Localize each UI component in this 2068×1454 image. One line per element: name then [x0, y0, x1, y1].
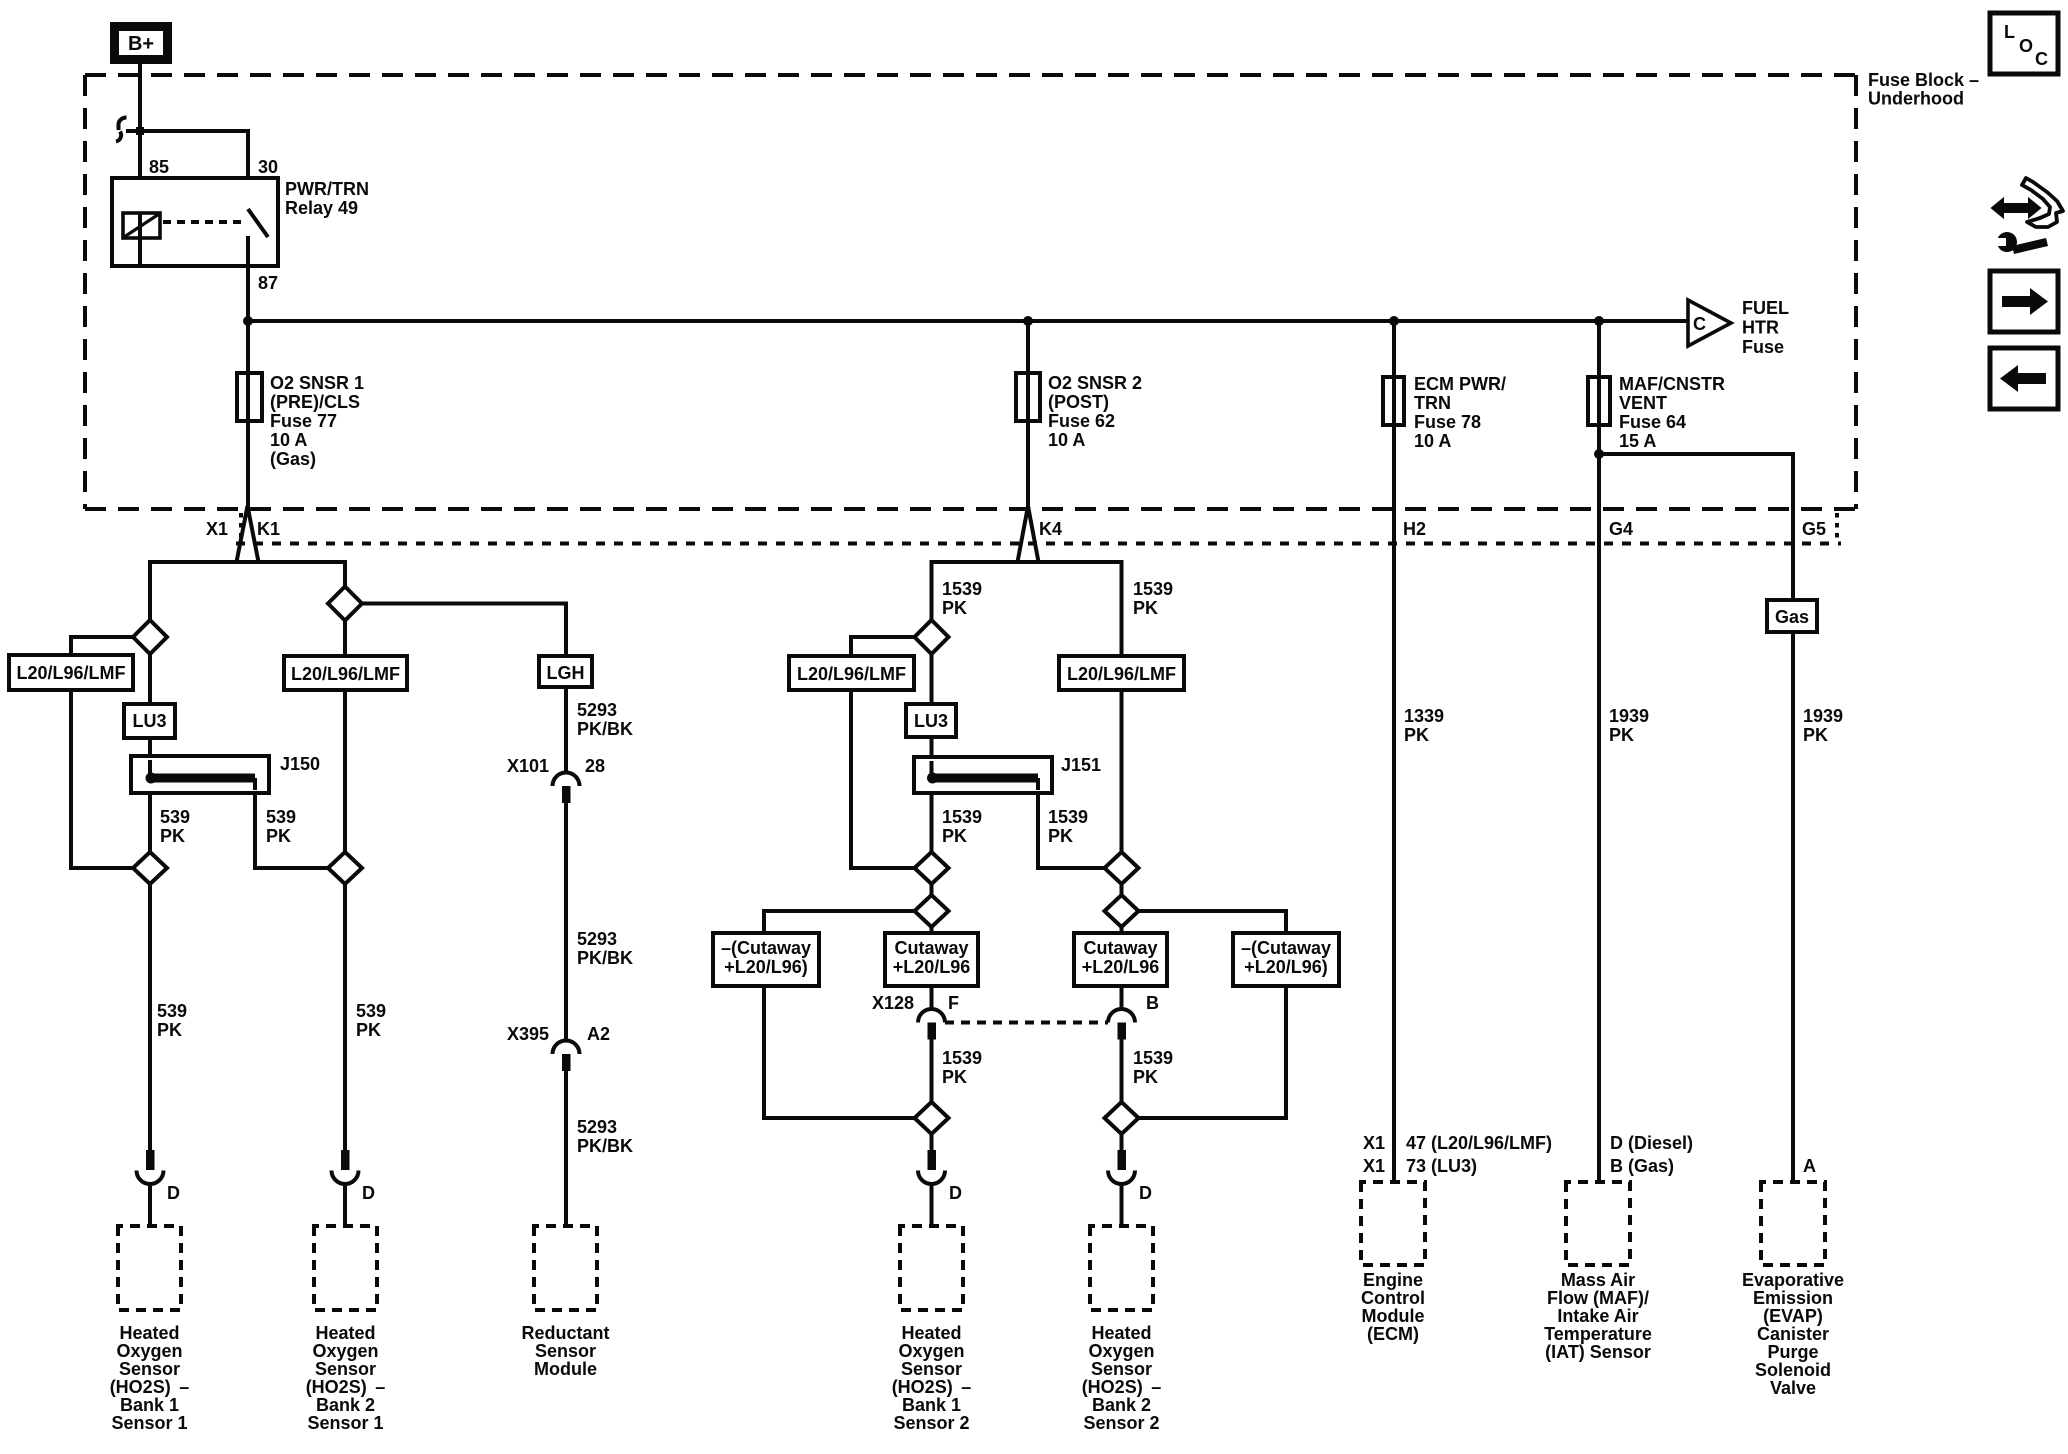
wire bus through fuse 64 down to MAF	[1597, 321, 1601, 1182]
svg-text:PK: PK	[266, 826, 291, 846]
reductant sensor module dashed box	[534, 1226, 597, 1310]
relay coil	[123, 213, 160, 266]
ECM pin labels	[1363, 1133, 1552, 1176]
splice pack J151	[914, 755, 1101, 793]
diamond splice col5 row D	[1105, 1102, 1139, 1134]
inline connector X128 pin B	[1108, 993, 1159, 1040]
junction dot G4 branch	[1594, 449, 1604, 459]
svg-text:Engine: Engine	[1363, 1270, 1423, 1290]
svg-text:73 (LU3): 73 (LU3)	[1406, 1156, 1477, 1176]
svg-text:Oxygen: Oxygen	[1088, 1341, 1154, 1361]
svg-text:Bank 2: Bank 2	[316, 1395, 375, 1415]
svg-text:Oxygen: Oxygen	[116, 1341, 182, 1361]
main feed bus wire	[248, 319, 1688, 323]
relay actuation dashed link	[163, 220, 242, 224]
svg-text:L: L	[2004, 22, 2015, 42]
component connector D col1	[137, 1150, 181, 1226]
svg-text:PK: PK	[356, 1020, 381, 1040]
splice pack J150	[131, 754, 320, 793]
HO2S bank2 sensor1 name	[306, 1323, 386, 1433]
col4 cutaway branch wire	[764, 911, 915, 1118]
HO2S bank2 sensor2 name	[1082, 1323, 1162, 1433]
X128 same-connector dashed link	[945, 1021, 1108, 1025]
wire branch to relay pin 30	[126, 131, 248, 209]
svg-text:X1: X1	[1363, 1156, 1385, 1176]
svg-text:D: D	[949, 1183, 962, 1203]
svg-text:B+: B+	[128, 33, 154, 55]
svg-text:Relay 49: Relay 49	[285, 198, 358, 218]
svg-text:PK: PK	[1404, 725, 1429, 745]
LGH branch wire	[362, 604, 566, 773]
svg-text:Module: Module	[1362, 1306, 1425, 1326]
svg-text:539: 539	[266, 807, 296, 827]
svg-text:Fuse 77: Fuse 77	[270, 411, 337, 431]
svg-text:PK: PK	[1048, 826, 1073, 846]
svg-text:(POST): (POST)	[1048, 392, 1109, 412]
wire bus through fuse 78 down to ECM	[1392, 321, 1396, 1182]
svg-text:Underhood: Underhood	[1868, 89, 1964, 109]
svg-text:1939: 1939	[1609, 706, 1649, 726]
col1 wire HO2S bank1 sensor1	[148, 654, 152, 1152]
back arrow box	[1990, 348, 2058, 409]
svg-text:539: 539	[157, 1001, 187, 1021]
svg-text:Gas: Gas	[1775, 607, 1809, 627]
wire labels 539 PK lower	[157, 1001, 386, 1040]
relay switch blade	[248, 209, 268, 266]
junction dots on bus	[243, 316, 1604, 326]
svg-text:Control: Control	[1361, 1288, 1425, 1308]
col5 wire diamond to D connector	[1120, 1134, 1124, 1152]
component connector D col4	[918, 1150, 962, 1226]
diamond splice col4 row C	[915, 895, 949, 927]
svg-text:Oxygen: Oxygen	[898, 1341, 964, 1361]
svg-text:Sensor: Sensor	[535, 1341, 596, 1361]
branch wire to G5	[1599, 454, 1793, 600]
wire split below K4	[932, 562, 1122, 656]
svg-text:Flow (MAF)/: Flow (MAF)/	[1547, 1288, 1649, 1308]
svg-text:LU3: LU3	[914, 711, 948, 731]
col4 option wire through L20 box	[851, 637, 915, 868]
svg-text:D: D	[362, 1183, 375, 1203]
svg-text:Evaporative: Evaporative	[1742, 1270, 1844, 1290]
svg-text:+L20/L96: +L20/L96	[893, 957, 971, 977]
wire X101 to X395	[564, 803, 568, 1041]
svg-text:10 A: 10 A	[1048, 430, 1085, 450]
svg-text:(PRE)/CLS: (PRE)/CLS	[270, 392, 360, 412]
power node B+	[115, 27, 168, 60]
svg-text:30: 30	[258, 157, 278, 177]
wire label 5293 PK/BK upper	[577, 700, 633, 739]
svg-text:Purge: Purge	[1767, 1342, 1818, 1362]
svg-text:Sensor: Sensor	[901, 1359, 962, 1379]
component connector D col2	[332, 1150, 376, 1226]
wire B+ down to relay pin 85	[138, 64, 142, 213]
svg-text:Emission: Emission	[1753, 1288, 1833, 1308]
svg-text:Temperature: Temperature	[1544, 1324, 1652, 1344]
svg-text:Sensor: Sensor	[119, 1359, 180, 1379]
svg-text:O2 SNSR 1: O2 SNSR 1	[270, 373, 364, 393]
LOC legend box	[1990, 13, 2058, 74]
wire labels 539 PK below J150	[160, 807, 296, 846]
svg-text:Heated: Heated	[901, 1323, 961, 1343]
wire label 1339 PK	[1404, 706, 1444, 745]
svg-text:Intake Air: Intake Air	[1557, 1306, 1638, 1326]
svg-text:PK: PK	[942, 826, 967, 846]
svg-text:1539: 1539	[942, 807, 982, 827]
svg-text:10 A: 10 A	[270, 430, 307, 450]
fuse block underhood dashed box	[85, 70, 1979, 509]
MAF name	[1544, 1270, 1652, 1362]
svg-text:PK: PK	[1609, 725, 1634, 745]
svg-text:L20/L96/LMF: L20/L96/LMF	[797, 664, 906, 684]
forward arrow box	[1990, 271, 2058, 332]
svg-text:ECM PWR/: ECM PWR/	[1414, 374, 1506, 394]
svg-text:LGH: LGH	[547, 663, 585, 683]
HO2S bank2 sensor2 dashed box	[1090, 1226, 1153, 1310]
EVAP dashed box	[1761, 1182, 1825, 1265]
svg-text:1539: 1539	[942, 579, 982, 599]
svg-text:LU3: LU3	[132, 711, 166, 731]
HO2S bank1 sensor2 name	[892, 1323, 972, 1433]
svg-text:TRN: TRN	[1414, 393, 1451, 413]
svg-text:X128: X128	[872, 993, 914, 1013]
svg-text:O: O	[2019, 36, 2033, 56]
col5 wire	[1120, 656, 1124, 1009]
svg-text:H2: H2	[1403, 519, 1426, 539]
inline connector X101 pin 28	[507, 756, 605, 803]
svg-text:(ECM): (ECM)	[1367, 1324, 1419, 1344]
svg-text:X1: X1	[1363, 1133, 1385, 1153]
wire label 5293 PK/BK lower	[577, 1117, 633, 1156]
svg-text:Fuse Block –: Fuse Block –	[1868, 70, 1979, 90]
svg-text:1939: 1939	[1803, 706, 1843, 726]
wire X395 to reductant module	[564, 1071, 568, 1226]
svg-text:D (Diesel): D (Diesel)	[1610, 1133, 1693, 1153]
svg-text:(HO2S) –: (HO2S) –	[892, 1377, 972, 1397]
wire bus to fuse 62 to connector K4	[1026, 321, 1030, 508]
svg-text:1339: 1339	[1404, 706, 1444, 726]
svg-text:Module: Module	[534, 1359, 597, 1379]
wire labels 1539 PK top pair	[942, 579, 1173, 618]
svg-text:Sensor 1: Sensor 1	[307, 1413, 383, 1433]
wire labels 1539 PK bottom pair	[942, 1048, 1173, 1087]
fuse 78	[1383, 374, 1506, 451]
wire G5 down to EVAP	[1791, 600, 1795, 1182]
connector boundary dotted line	[236, 513, 1841, 544]
option box LGH	[539, 656, 592, 687]
MAF dashed box	[1566, 1182, 1630, 1265]
svg-text:Cutaway: Cutaway	[1083, 938, 1157, 958]
MAF pin labels	[1610, 1133, 1693, 1176]
svg-text:87: 87	[258, 273, 278, 293]
svg-text:Reductant: Reductant	[521, 1323, 609, 1343]
col5 cutaway branch wire	[1139, 911, 1287, 1118]
option box L20/L96/LMF col5	[1059, 656, 1184, 690]
svg-text:Solenoid: Solenoid	[1755, 1360, 1831, 1380]
svg-text:PK/BK: PK/BK	[577, 1136, 633, 1156]
svg-text:Bank 2: Bank 2	[1092, 1395, 1151, 1415]
svg-text:PK/BK: PK/BK	[577, 948, 633, 968]
svg-text:(HO2S) –: (HO2S) –	[306, 1377, 386, 1397]
svg-text:5293: 5293	[577, 1117, 617, 1137]
reductant sensor module name	[521, 1323, 609, 1379]
diamond splice col4 row B	[915, 852, 949, 884]
svg-text:(Gas): (Gas)	[270, 449, 316, 469]
svg-text:(IAT) Sensor: (IAT) Sensor	[1545, 1342, 1651, 1362]
col4 wire	[930, 654, 934, 1009]
svg-text:Sensor 2: Sensor 2	[1083, 1413, 1159, 1433]
junction at B+ branch	[136, 127, 144, 135]
relay pin labels	[149, 157, 278, 293]
svg-text:HTR: HTR	[1742, 318, 1779, 338]
fuse 64	[1588, 374, 1725, 451]
diamond splice col2 lower	[328, 852, 362, 884]
svg-text:Sensor: Sensor	[315, 1359, 376, 1379]
svg-text:L20/L96/LMF: L20/L96/LMF	[291, 664, 400, 684]
svg-text:47 (L20/L96/LMF): 47 (L20/L96/LMF)	[1406, 1133, 1552, 1153]
ECM dashed box	[1361, 1182, 1425, 1265]
inline connector X395 pin A2	[507, 1024, 610, 1071]
svg-text:X101: X101	[507, 756, 549, 776]
svg-text:MAF/CNSTR: MAF/CNSTR	[1619, 374, 1725, 394]
option box LU3 col4	[906, 704, 956, 737]
diamond splice col1 upper	[133, 620, 167, 654]
svg-text:Bank 1: Bank 1	[902, 1395, 961, 1415]
svg-text:B (Gas): B (Gas)	[1610, 1156, 1674, 1176]
svg-text:+L20/L96: +L20/L96	[1082, 957, 1160, 977]
wire label 1939 PK (EVAP)	[1803, 706, 1843, 745]
HO2S bank1 sensor1 name	[110, 1323, 190, 1433]
svg-text:D: D	[167, 1183, 180, 1203]
svg-text:5293: 5293	[577, 700, 617, 720]
svg-text:Mass Air: Mass Air	[1561, 1270, 1635, 1290]
cutaway option box col4	[885, 933, 978, 986]
svg-text:X395: X395	[507, 1024, 549, 1044]
svg-text:85: 85	[149, 157, 169, 177]
option box L20/L96/LMF col0	[9, 655, 133, 690]
EVAP name	[1742, 1270, 1844, 1398]
svg-text:15 A: 15 A	[1619, 431, 1656, 451]
svg-text:L20/L96/LMF: L20/L96/LMF	[16, 663, 125, 683]
diamond splice col5 row B	[1105, 852, 1139, 884]
svg-text:Fuse: Fuse	[1742, 337, 1784, 357]
cutaway option box far left	[713, 933, 819, 986]
svg-text:5293: 5293	[577, 929, 617, 949]
wire labels 1539 PK below J151	[942, 807, 1088, 846]
svg-text:1539: 1539	[1133, 579, 1173, 599]
svg-text:PK: PK	[942, 1067, 967, 1087]
HO2S bank1 sensor1 dashed box	[118, 1226, 181, 1310]
diamond splice col2 upper	[328, 587, 362, 621]
J150 right output wire	[255, 780, 328, 868]
FUEL HTR Fuse pointer	[1688, 298, 1789, 357]
svg-text:PK: PK	[1133, 598, 1158, 618]
inline connector X128 pin F	[872, 993, 959, 1040]
svg-text:PK: PK	[1803, 725, 1828, 745]
svg-text:1539: 1539	[942, 1048, 982, 1068]
diamond splice col4 upper	[915, 620, 949, 654]
svg-text:–(Cutaway: –(Cutaway	[1241, 938, 1331, 958]
connector X1 pin K1 crossing	[206, 506, 280, 562]
component connector D col5	[1108, 1150, 1152, 1226]
splice hook symbol at battery feed	[116, 118, 127, 142]
svg-text:Canister: Canister	[1757, 1324, 1829, 1344]
svg-text:Bank 1: Bank 1	[120, 1395, 179, 1415]
diamond splice col4 row D	[915, 1102, 949, 1134]
svg-text:1539: 1539	[1048, 807, 1088, 827]
wire bus to fuse 77 to connector X1	[246, 321, 250, 508]
connector K4 crossing	[1018, 506, 1063, 562]
col2 wire HO2S bank2 sensor1	[343, 620, 347, 1153]
HO2S bank2 sensor1 dashed box	[314, 1226, 377, 1310]
svg-text:J150: J150	[280, 754, 320, 774]
option box LU3 col1	[124, 704, 175, 738]
svg-text:(HO2S) –: (HO2S) –	[1082, 1377, 1162, 1397]
svg-text:Oxygen: Oxygen	[312, 1341, 378, 1361]
svg-text:Heated: Heated	[1091, 1323, 1151, 1343]
col5 wire X128 to diamond D	[1120, 1040, 1124, 1103]
option box L20/L96/LMF col2	[284, 656, 407, 690]
svg-text:Fuse 78: Fuse 78	[1414, 412, 1481, 432]
svg-text:PK: PK	[160, 826, 185, 846]
svg-text:A: A	[1803, 1156, 1816, 1176]
svg-text:(EVAP): (EVAP)	[1763, 1306, 1823, 1326]
svg-text:(HO2S) –: (HO2S) –	[110, 1377, 190, 1397]
svg-text:1539: 1539	[1133, 1048, 1173, 1068]
svg-text:G4: G4	[1609, 519, 1633, 539]
svg-text:Heated: Heated	[119, 1323, 179, 1343]
svg-text:C: C	[1693, 314, 1706, 334]
svg-text:FUEL: FUEL	[1742, 298, 1789, 318]
wire pin 87 to bus	[246, 266, 250, 321]
svg-text:539: 539	[160, 807, 190, 827]
svg-text:B: B	[1146, 993, 1159, 1013]
svg-text:Fuse 62: Fuse 62	[1048, 411, 1115, 431]
HO2S bank1 sensor2 dashed box	[900, 1226, 963, 1310]
svg-text:A2: A2	[587, 1024, 610, 1044]
wire split below K1	[150, 562, 345, 621]
svg-text:VENT: VENT	[1619, 393, 1667, 413]
svg-text:Sensor 2: Sensor 2	[893, 1413, 969, 1433]
ECM name	[1361, 1270, 1425, 1344]
svg-text:PK: PK	[1133, 1067, 1158, 1087]
option box L20/L96/LMF col4	[789, 656, 914, 690]
relay PWR/TRN Relay 49 box	[112, 178, 278, 266]
svg-text:PK: PK	[942, 598, 967, 618]
service info icon (arrows and wrench)	[1992, 178, 2063, 254]
svg-text:Fuse 64: Fuse 64	[1619, 412, 1686, 432]
svg-text:O2 SNSR 2: O2 SNSR 2	[1048, 373, 1142, 393]
svg-text:K1: K1	[257, 519, 280, 539]
svg-text:539: 539	[356, 1001, 386, 1021]
diamond splice col5 row C	[1105, 895, 1139, 927]
svg-text:K4: K4	[1039, 519, 1062, 539]
svg-text:D: D	[1139, 1183, 1152, 1203]
svg-text:Sensor: Sensor	[1091, 1359, 1152, 1379]
col1 option wire through L20 box	[71, 637, 133, 868]
svg-text:G5: G5	[1802, 519, 1826, 539]
svg-text:Sensor 1: Sensor 1	[111, 1413, 187, 1433]
svg-text:Heated: Heated	[315, 1323, 375, 1343]
svg-text:+L20/L96): +L20/L96)	[1244, 957, 1328, 977]
svg-text:PK/BK: PK/BK	[577, 719, 633, 739]
col4 wire diamond to D connector	[930, 1134, 934, 1152]
svg-text:L20/L96/LMF: L20/L96/LMF	[1067, 664, 1176, 684]
svg-text:28: 28	[585, 756, 605, 776]
svg-text:+L20/L96): +L20/L96)	[724, 957, 808, 977]
cutaway option box col5	[1074, 933, 1167, 986]
diamond splice col1 lower	[133, 852, 167, 884]
col4 wire X128 to diamond D	[930, 1040, 934, 1103]
svg-text:C: C	[2035, 49, 2048, 69]
fuse 62	[1016, 373, 1142, 450]
svg-text:PWR/TRN: PWR/TRN	[285, 179, 369, 199]
svg-text:Cutaway: Cutaway	[894, 938, 968, 958]
svg-text:PK: PK	[157, 1020, 182, 1040]
relay name label	[285, 179, 369, 218]
svg-text:F: F	[948, 993, 959, 1013]
svg-text:–(Cutaway: –(Cutaway	[721, 938, 811, 958]
svg-text:X1: X1	[206, 519, 228, 539]
svg-text:10 A: 10 A	[1414, 431, 1451, 451]
svg-text:Valve: Valve	[1770, 1378, 1816, 1398]
J151 right output wire	[1038, 780, 1105, 868]
wire label 5293 PK/BK middle	[577, 929, 633, 968]
wire label 1939 PK (MAF)	[1609, 706, 1649, 745]
Gas option box	[1767, 600, 1817, 632]
fuse 77	[237, 373, 364, 469]
svg-text:J151: J151	[1061, 755, 1101, 775]
cutaway option box far right	[1233, 933, 1339, 986]
